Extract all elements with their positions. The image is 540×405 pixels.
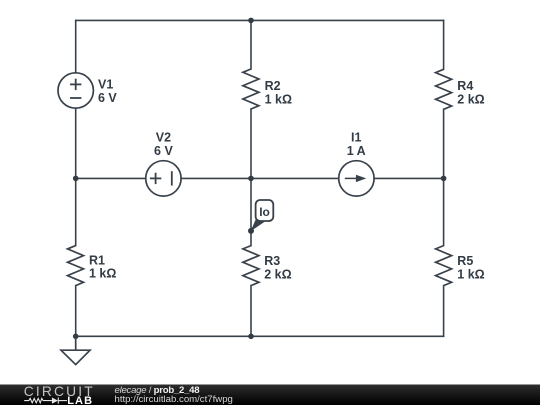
- svg-text:R5: R5: [457, 254, 473, 268]
- svg-text:2 kΩ: 2 kΩ: [457, 92, 484, 106]
- svg-text:V1: V1: [98, 78, 113, 92]
- wire middle vertical upper: [250, 20, 252, 69]
- svg-text:1 A: 1 A: [347, 144, 366, 158]
- wire right vertical bottom: [443, 286, 445, 337]
- svg-text:V2: V2: [156, 131, 171, 145]
- svg-text:LAB: LAB: [67, 395, 93, 405]
- svg-text:R3: R3: [264, 254, 280, 268]
- node left middle: [73, 176, 79, 182]
- svg-text:6 V: 6 V: [154, 144, 173, 158]
- wire bottom rail: [76, 335, 444, 337]
- wire left vertical upper: [75, 20, 77, 72]
- svg-text:1 kΩ: 1 kΩ: [457, 267, 484, 281]
- voltage source V1: [58, 73, 93, 108]
- wire right vertical lower: [443, 109, 445, 245]
- wire top rail: [76, 19, 444, 21]
- svg-text:Io: Io: [259, 205, 270, 219]
- wire middle rail center: [181, 177, 339, 179]
- resistor R5: [436, 246, 452, 286]
- resistor R2: [243, 69, 259, 109]
- node center middle: [248, 176, 254, 182]
- wire right vertical upper: [443, 20, 445, 69]
- node right middle: [441, 176, 447, 182]
- svg-text:R4: R4: [457, 79, 473, 93]
- svg-text:2 kΩ: 2 kΩ: [264, 267, 291, 281]
- voltage source V2: [146, 161, 181, 196]
- wire middle vertical bottom: [250, 286, 252, 337]
- node top middle: [248, 18, 254, 24]
- ground: [61, 336, 90, 364]
- wire middle rail left: [76, 177, 146, 179]
- wire middle rail right: [374, 177, 444, 179]
- resistor R4: [436, 69, 452, 109]
- svg-text:R2: R2: [265, 79, 281, 93]
- wire left vertical mid: [75, 108, 77, 245]
- svg-text:R1: R1: [89, 253, 105, 267]
- current probe Io callout: [248, 200, 273, 234]
- resistor R3: [243, 246, 259, 286]
- current source I1: [339, 161, 374, 196]
- svg-text:6 V: 6 V: [98, 91, 117, 105]
- node bottom left: [73, 334, 79, 340]
- svg-text:1 kΩ: 1 kΩ: [89, 267, 116, 281]
- node bottom middle: [248, 334, 254, 340]
- svg-text:http://circuitlab.com/ct7fwpg: http://circuitlab.com/ct7fwpg: [115, 394, 233, 405]
- wire middle vertical lower: [250, 109, 252, 246]
- resistor R1: [68, 246, 84, 286]
- wire left vertical lower: [75, 286, 77, 337]
- svg-text:I1: I1: [351, 131, 361, 145]
- svg-text:1 kΩ: 1 kΩ: [265, 92, 292, 106]
- CircuitLab logo resistor-diode glyph: [24, 398, 67, 404]
